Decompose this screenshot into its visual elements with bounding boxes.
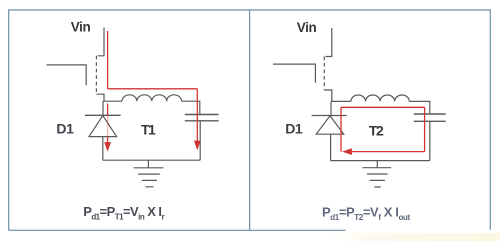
- wire red through diode: [107, 104, 109, 116]
- panel divider: [249, 10, 251, 230]
- wire red loop bottom: [352, 151, 425, 153]
- transistor Q1 drain lead: [98, 28, 104, 56]
- inductor T1 coil: [122, 95, 182, 101]
- transistor Q1 gate wire: [47, 65, 87, 85]
- red current trace (left): Vin through Q1 to output cap: [108, 31, 198, 143]
- ground right: [363, 161, 392, 187]
- ground left: [134, 160, 164, 187]
- svg-text:D1: D1: [56, 120, 74, 136]
- wire inductor to capacitor: [182, 101, 200, 114]
- transistor Q2 source lead: [324, 90, 332, 101]
- arrowhead red loop pointing left: [342, 148, 352, 155]
- diode D1 right cathode bar: [312, 115, 347, 117]
- transistor Q2 dashed channel: [323, 57, 325, 91]
- wire red loop left: [340, 107, 342, 151]
- diode D1 right top lead: [330, 101, 332, 115]
- red current loop (right): freewheeling through D1: [341, 107, 425, 151]
- diode D1 right bottom lead: [330, 134, 332, 160]
- wire inductor to capacitor right: [409, 101, 430, 113]
- transistor Q1 source lead: [96, 94, 104, 101]
- diode D1 cathode bar: [85, 114, 121, 116]
- svg-text:T2: T2: [369, 122, 384, 138]
- svg-text:Pd1=PT2=Vf X Iout: Pd1=PT2=Vf X Iout: [322, 205, 410, 222]
- wire red loop right: [424, 107, 426, 151]
- capacitor C2 plates: [414, 114, 446, 121]
- transistor Q1 dashed channel: [95, 56, 97, 94]
- diode D1 bottom lead: [102, 137, 104, 161]
- inductor T2 coil: [351, 95, 409, 101]
- capacitor C2 bottom lead: [429, 122, 431, 161]
- svg-text:Vin: Vin: [297, 20, 317, 35]
- svg-text:D1: D1: [285, 120, 303, 136]
- wire red vertical at Q1: [107, 31, 109, 89]
- wire red down at capacitor: [196, 89, 198, 141]
- svg-text:Pd1=PT1=Vin X Ir: Pd1=PT1=Vin X Ir: [83, 204, 164, 221]
- bottom rail wire right: [331, 160, 430, 162]
- wire node to inductor right: [331, 100, 351, 102]
- wire node to inductor: [103, 100, 122, 102]
- svg-text:Vin: Vin: [71, 20, 91, 35]
- wire red horizontal above coil: [108, 88, 198, 90]
- arrowhead red at capacitor: [194, 141, 201, 151]
- capacitor C1 bottom lead: [199, 121, 201, 160]
- wire red loop top: [341, 106, 425, 108]
- diode D1 triangle: [89, 116, 117, 137]
- capacitor C1 plates: [185, 115, 219, 121]
- diode D1 right triangle: [316, 116, 344, 134]
- transistor Q2 gate wire: [273, 64, 315, 83]
- diode D1 top lead: [102, 101, 104, 115]
- transistor Q2 drain lead: [326, 28, 332, 57]
- svg-text:T1: T1: [141, 121, 156, 137]
- arrowhead red below diode: [104, 142, 111, 152]
- bottom rail wire: [103, 159, 200, 161]
